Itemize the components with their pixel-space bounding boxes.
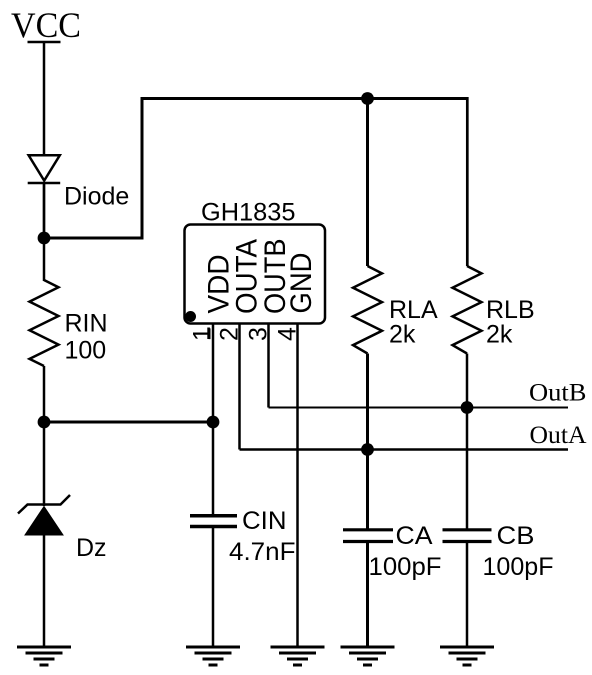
- svg-text:OutA: OutA: [530, 422, 587, 449]
- wire CB to ground: [466, 541, 469, 647]
- junction node B: [38, 416, 51, 429]
- wire node B to zener: [43, 422, 46, 506]
- svg-text:4.7nF: 4.7nF: [229, 538, 296, 566]
- junction top node: [361, 92, 374, 105]
- svg-text:RIN: RIN: [65, 310, 108, 338]
- svg-text:Dz: Dz: [76, 534, 107, 562]
- resistor RLB: [453, 266, 482, 354]
- capacitor CIN: [190, 516, 237, 527]
- junction pin1/node B: [207, 416, 220, 429]
- ground under CIN: [186, 647, 240, 665]
- wire corner up: [141, 99, 144, 240]
- wire node B to pin1 wire: [44, 421, 213, 424]
- wire RIN to node B: [43, 366, 46, 422]
- svg-text:CB: CB: [497, 522, 535, 550]
- wire node A to corner: [44, 237, 144, 240]
- pin 1 marker dot: [185, 311, 196, 322]
- junction OutB/RLB: [461, 401, 474, 414]
- wire pin1 down to CIN: [212, 324, 215, 516]
- wire diode to node A: [43, 183, 46, 239]
- svg-text:100: 100: [65, 337, 107, 365]
- wire RLA down to CA: [366, 354, 369, 530]
- svg-text:100pF: 100pF: [483, 553, 554, 581]
- svg-text:OutB: OutB: [529, 380, 587, 407]
- wire VCC to diode: [43, 42, 46, 156]
- wire RLB down to CB: [466, 354, 469, 530]
- wire down to RLA: [366, 99, 369, 267]
- ground under CB: [440, 647, 494, 665]
- capacitor CA: [343, 530, 393, 542]
- wire OutB horizontal: [269, 407, 569, 409]
- wire pin4 down to ground: [296, 324, 299, 648]
- diode D1 symbol: [28, 155, 61, 183]
- wire pin2 down: [238, 324, 241, 450]
- resistor RLA: [353, 266, 382, 354]
- wire node A to RIN: [43, 238, 46, 281]
- wire zener to ground: [43, 535, 46, 647]
- capacitor CB: [443, 530, 492, 542]
- VCC terminal bar: [28, 41, 61, 44]
- svg-text:Diode: Diode: [64, 183, 129, 211]
- junction OutA/RLA: [361, 443, 374, 456]
- wire top horizontal: [141, 97, 469, 100]
- resistor RIN: [30, 280, 59, 366]
- svg-text:GH1835: GH1835: [201, 199, 296, 227]
- ground under pin4: [271, 647, 325, 665]
- ground under CA: [341, 647, 395, 665]
- svg-text:2k: 2k: [486, 321, 513, 349]
- svg-text:CIN: CIN: [242, 507, 287, 535]
- wire OutA horizontal: [240, 448, 569, 451]
- ground under Dz: [17, 647, 71, 665]
- wire pin3 down: [267, 324, 270, 408]
- wire CA to ground: [366, 541, 369, 647]
- svg-text:2k: 2k: [389, 321, 416, 349]
- IC U1 body: [185, 225, 326, 324]
- svg-text:CA: CA: [396, 522, 433, 550]
- svg-text:100pF: 100pF: [369, 553, 442, 581]
- svg-text:GND: GND: [285, 253, 318, 314]
- zener diode Dz: [18, 495, 70, 535]
- wire down to RLB: [466, 97, 469, 266]
- svg-text:VCC: VCC: [11, 5, 81, 45]
- junction node A: [38, 232, 51, 245]
- wire CIN to ground: [212, 527, 215, 647]
